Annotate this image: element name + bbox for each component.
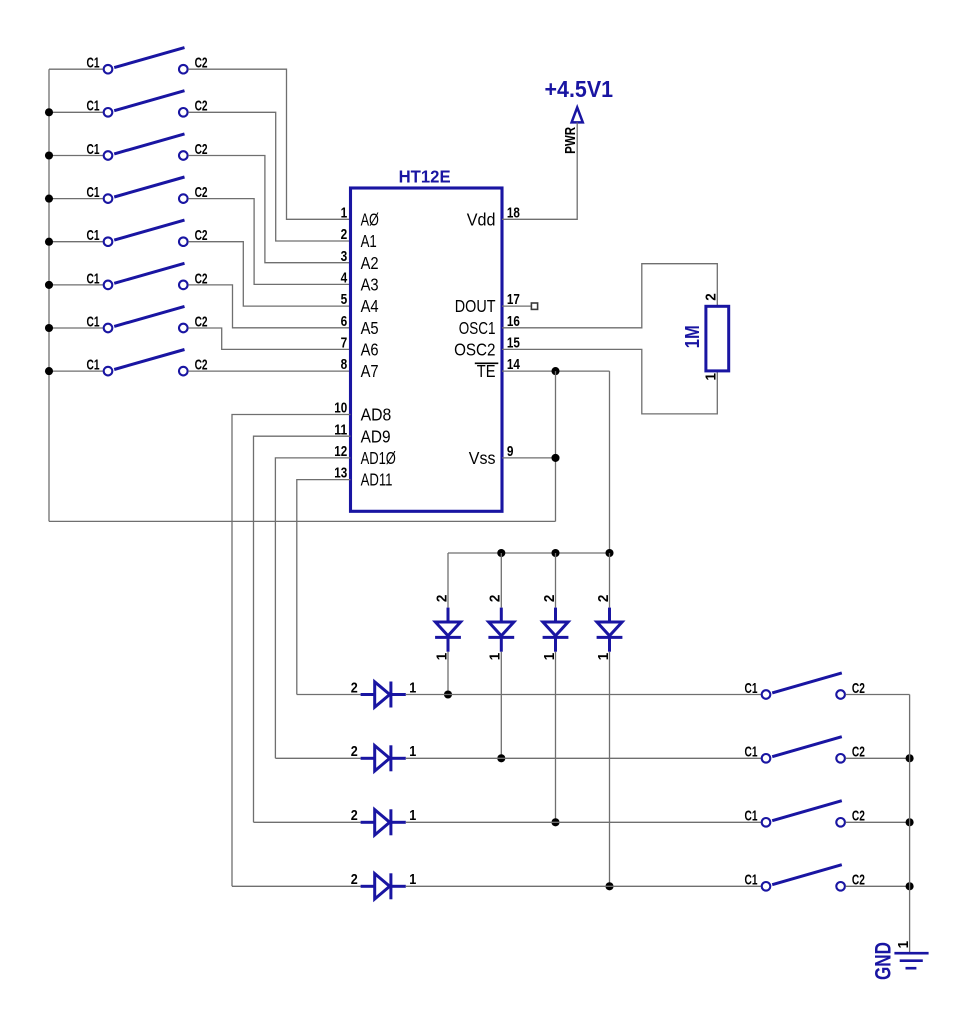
label GND	[871, 942, 896, 980]
svg-text:5: 5	[341, 291, 348, 308]
wire vertical diode D6 leads	[500, 553, 502, 758]
svg-text:1: 1	[487, 653, 504, 661]
svg-text:TE: TE	[477, 361, 496, 381]
svg-text:7: 7	[341, 335, 348, 352]
switch SW2 (C1/C2)	[87, 91, 208, 117]
svg-text:A4: A4	[361, 296, 379, 316]
wire Vss vertical	[555, 371, 557, 521]
pin 9 label Vss	[469, 443, 514, 468]
svg-text:+4.5V1: +4.5V1	[545, 76, 614, 102]
pin 2 label A1	[341, 226, 377, 251]
wire bus to SW8 C1	[49, 370, 103, 372]
svg-text:1: 1	[895, 941, 912, 949]
svg-text:1: 1	[703, 373, 720, 381]
wire pin 13 to diode row 1	[297, 480, 351, 695]
wire pin 11 to diode row 3	[254, 436, 351, 822]
svg-text:1: 1	[433, 653, 450, 661]
svg-text:2: 2	[703, 293, 720, 301]
label PWR	[563, 126, 579, 153]
pin 5 label A4	[341, 291, 379, 316]
wire SW10 C2 to ground bus	[846, 757, 910, 759]
pin 18 label Vdd	[467, 204, 520, 229]
pin 1 label D5	[433, 653, 450, 661]
svg-text:C1: C1	[87, 227, 100, 244]
svg-text:A5: A5	[361, 318, 379, 338]
svg-text:2: 2	[541, 595, 558, 603]
power +4.5V1 symbol	[545, 76, 614, 123]
pin 6 label A5	[341, 313, 379, 338]
pin 12 label AD10	[334, 443, 396, 468]
switch SW3 (C1/C2)	[87, 134, 208, 160]
svg-text:1: 1	[341, 204, 348, 221]
wire vertical diode D5 leads	[447, 553, 449, 695]
diode D5 (vertical)	[435, 608, 461, 652]
wire bus to SW4 C1	[49, 198, 103, 200]
switch SW9 (right, C1/C2)	[745, 673, 865, 699]
svg-text:C1: C1	[87, 357, 100, 374]
pin 1 label D8	[595, 653, 612, 661]
svg-text:1: 1	[541, 653, 558, 661]
svg-text:1: 1	[409, 679, 416, 696]
pin 2 label D7	[541, 595, 558, 603]
junction D8 row4	[605, 882, 613, 890]
svg-text:C1: C1	[745, 744, 758, 761]
wire SW8 C2 to pin 8	[188, 370, 350, 372]
junction bus D7	[551, 549, 559, 557]
diode D4 (horizontal)	[361, 873, 406, 899]
svg-text:PWR: PWR	[563, 126, 579, 153]
diode D8 (vertical)	[597, 608, 623, 652]
svg-text:C1: C1	[87, 184, 100, 201]
wire bottom bus to Vss net	[49, 520, 556, 522]
wire SW6 C2 to pin 6	[188, 285, 350, 328]
pin 1 label D3	[409, 807, 416, 824]
svg-text:2: 2	[351, 679, 358, 696]
diode D7 (vertical)	[543, 608, 569, 652]
wire SW1 C2 to pin 1	[188, 69, 350, 219]
ground symbol	[894, 953, 928, 968]
pin 1 label A0	[341, 204, 379, 229]
node bus wire (switch common, left vertical)	[48, 69, 50, 521]
wire bus to SW3 C1	[49, 155, 103, 157]
svg-text:3: 3	[341, 248, 348, 265]
resistor R1 1M	[682, 306, 729, 371]
svg-text:2: 2	[595, 595, 612, 603]
wire SW7 C2 to pin 7	[188, 328, 350, 349]
svg-text:C1: C1	[87, 55, 100, 72]
wire SW11 C2 to ground bus	[846, 821, 910, 823]
svg-text:C1: C1	[745, 872, 758, 889]
switch SW5 (C1/C2)	[87, 220, 208, 246]
svg-text:C1: C1	[745, 808, 758, 825]
svg-text:2: 2	[351, 871, 358, 888]
junction bus-SW7	[45, 324, 53, 332]
svg-text:Vdd: Vdd	[467, 209, 496, 229]
switch SW1 (C1/C2)	[87, 48, 208, 74]
wire diode anode bus	[448, 552, 610, 554]
svg-text:HT12E: HT12E	[399, 167, 451, 187]
pin 15 label OSC2	[454, 335, 520, 360]
pin 1 label D1	[409, 679, 416, 696]
pin 2 label D1	[351, 679, 358, 696]
wire bus to SW5 C1	[49, 241, 103, 243]
junction bus-SW3	[45, 151, 53, 159]
junction bus-SW6	[45, 281, 53, 289]
wire TE corner down to diode bus	[609, 371, 611, 553]
svg-text:A3: A3	[361, 275, 379, 295]
pin 1 label D4	[409, 871, 416, 888]
svg-text:AD11: AD11	[361, 470, 393, 490]
wire vertical diode D7 leads	[555, 553, 557, 822]
svg-text:C1: C1	[745, 680, 758, 697]
svg-text:C1: C1	[87, 270, 100, 287]
pin 11 label AD9	[334, 421, 390, 446]
diode D6 (vertical)	[488, 608, 514, 652]
wire row3 to right switch	[406, 821, 761, 823]
wire pin 10 to diode row 4	[232, 415, 351, 887]
svg-text:2: 2	[351, 807, 358, 824]
diode D3 (horizontal)	[361, 809, 406, 835]
wire vertical diode D8 leads	[609, 553, 611, 886]
svg-text:1: 1	[409, 743, 416, 760]
svg-text:OSC2: OSC2	[454, 340, 495, 360]
svg-text:AD9: AD9	[361, 426, 391, 446]
svg-text:1: 1	[595, 653, 612, 661]
wire SW9 C2 to ground bus	[846, 694, 910, 696]
diode D2 (horizontal)	[361, 745, 406, 771]
wire SW2 C2 to pin 2	[188, 112, 350, 241]
wire SW4 C2 to pin 4	[188, 199, 350, 285]
wire row4 to right switch	[406, 885, 761, 887]
pin 2 label D8	[595, 595, 612, 603]
pin 2 label D2	[351, 743, 358, 760]
pin 3 label A2	[341, 248, 379, 273]
svg-text:2: 2	[351, 743, 358, 760]
svg-text:2: 2	[341, 226, 348, 243]
junction bus-SW4	[45, 195, 53, 203]
wire OSC2 to resistor bottom	[502, 349, 717, 414]
wire SW3 C2 to pin 3	[188, 156, 350, 263]
svg-text:C1: C1	[87, 313, 100, 330]
pin 2 label D5	[433, 595, 450, 603]
svg-text:A2: A2	[361, 253, 379, 273]
wire SW5 C2 to pin 5	[188, 242, 350, 306]
pin 10 label AD8	[334, 400, 391, 425]
svg-text:AD1Ø: AD1Ø	[361, 448, 396, 468]
junction ground bus row4	[906, 882, 914, 890]
switch SW11 (right, C1/C2)	[745, 801, 865, 827]
junction Vss pin	[551, 454, 559, 462]
switch SW4 (C1/C2)	[87, 177, 208, 203]
wire Vss pin 9	[502, 457, 556, 459]
pin 2 label D6	[487, 595, 504, 603]
wire bus to SW2 C1	[49, 111, 103, 113]
pin 2 label D3	[351, 807, 358, 824]
wire SW12 C2 to ground bus	[846, 885, 910, 887]
wire row1 left	[297, 694, 361, 696]
pin 14 label TE	[475, 356, 521, 381]
junction TE-Vss net	[551, 367, 559, 375]
pin 1 label of resistor	[703, 373, 720, 381]
IC U1 HT12E body	[351, 167, 503, 512]
svg-text:2: 2	[433, 595, 450, 603]
junction bus-SW5	[45, 238, 53, 246]
wire row1 to right switch	[406, 694, 761, 696]
pin 1 label D7	[541, 653, 558, 661]
wire bus to SW1 C1	[49, 68, 103, 70]
pin 13 label AD11	[334, 465, 392, 490]
wire row4 left	[232, 885, 361, 887]
svg-text:1: 1	[409, 871, 416, 888]
pin 8 label A7	[341, 356, 379, 381]
pin 1 label GND	[895, 941, 912, 949]
terminal DOUT (pin 17)	[502, 303, 538, 309]
diode D1 (horizontal)	[361, 682, 406, 708]
wire bus to SW6 C1	[49, 284, 103, 286]
svg-text:A6: A6	[361, 340, 379, 360]
junction D5 row1	[444, 690, 452, 698]
pin 1 label D2	[409, 743, 416, 760]
svg-text:A1: A1	[361, 231, 377, 251]
svg-text:4: 4	[341, 270, 348, 287]
switch SW8 (C1/C2)	[87, 350, 208, 376]
wire bus to SW7 C1	[49, 327, 103, 329]
wire ground bus vertical	[909, 695, 911, 954]
wire row2 left	[275, 757, 360, 759]
junction D6 row2	[497, 754, 505, 762]
pin 2 label D4	[351, 871, 358, 888]
svg-text:2: 2	[487, 595, 504, 603]
junction bus D8	[605, 549, 613, 557]
svg-text:DOUT: DOUT	[455, 296, 496, 316]
junction bus D6	[497, 549, 505, 557]
pin 1 label D6	[487, 653, 504, 661]
svg-text:C1: C1	[87, 98, 100, 115]
junction D7 row3	[551, 818, 559, 826]
pin 2 label of resistor	[703, 293, 720, 301]
svg-text:8: 8	[341, 356, 348, 373]
junction ground bus row3	[906, 818, 914, 826]
switch SW6 (C1/C2)	[87, 263, 208, 289]
svg-text:1M: 1M	[682, 325, 704, 348]
wire pin 12 to diode row 2	[275, 458, 350, 758]
svg-text:C1: C1	[87, 141, 100, 158]
svg-text:1: 1	[409, 807, 416, 824]
switch SW7 (C1/C2)	[87, 306, 208, 332]
svg-text:AD8: AD8	[361, 405, 392, 425]
svg-text:6: 6	[341, 313, 348, 330]
svg-text:A7: A7	[361, 361, 379, 381]
svg-text:AØ: AØ	[361, 209, 379, 229]
pin 4 label A3	[341, 270, 379, 295]
wire PWR to pin 18	[502, 122, 577, 219]
pin 7 label A6	[341, 335, 379, 360]
pin 16 label OSC1	[459, 313, 520, 338]
junction bus-SW2	[45, 108, 53, 116]
switch SW12 (right, C1/C2)	[745, 865, 865, 891]
svg-text:GND: GND	[871, 942, 896, 980]
junction ground bus row2	[906, 754, 914, 762]
junction bus-SW8	[45, 367, 53, 375]
svg-text:OSC1: OSC1	[459, 318, 496, 338]
wire OSC1 to resistor top	[502, 264, 717, 328]
wire row3 left	[254, 821, 361, 823]
wire TE to right vertical	[502, 370, 610, 372]
switch SW10 (right, C1/C2)	[745, 737, 865, 763]
svg-text:Vss: Vss	[469, 448, 496, 468]
wire row2 to right switch	[406, 757, 761, 759]
pin 17 label DOUT	[455, 291, 520, 316]
